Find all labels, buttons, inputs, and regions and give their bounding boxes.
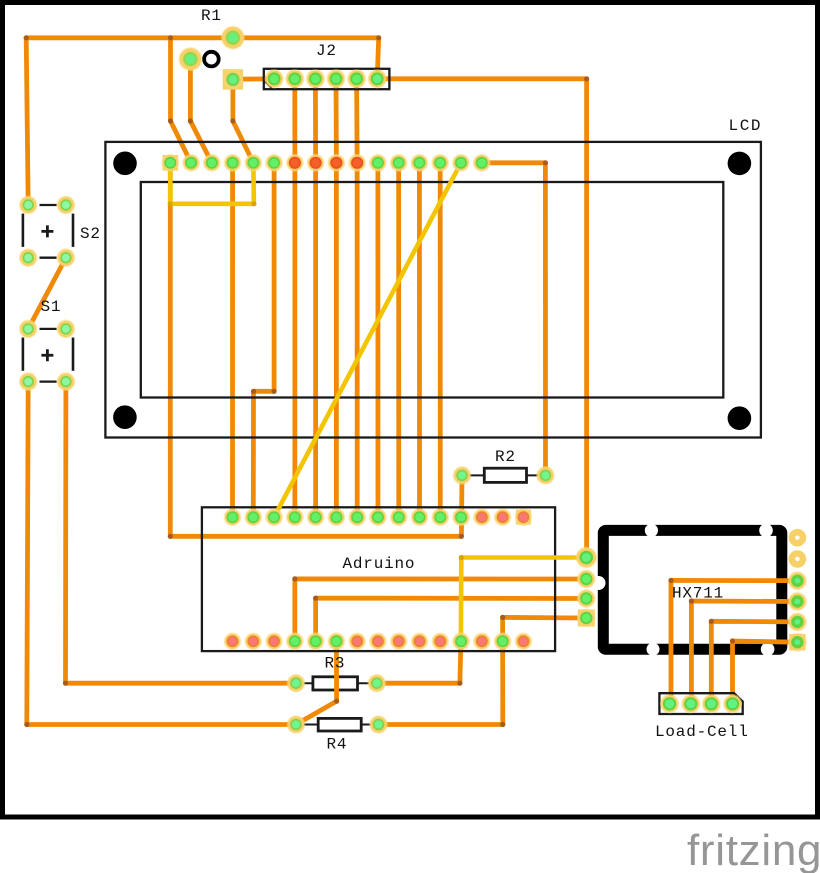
switch S2 pin 3 xyxy=(19,248,38,267)
svg-text:R3: R3 xyxy=(325,655,346,673)
Arduino bottom pin 17 xyxy=(244,633,262,651)
HX711 left pin 3 xyxy=(577,589,596,608)
Arduino bottom pin 21 xyxy=(328,632,346,650)
wire xyxy=(668,578,797,704)
wire xyxy=(188,59,212,163)
LCD pin 7 xyxy=(286,154,304,172)
wire xyxy=(251,163,277,517)
wire xyxy=(500,615,586,641)
wire xyxy=(334,79,339,517)
Arduino bottom pin 18 xyxy=(265,633,283,651)
wire xyxy=(168,163,257,207)
wire xyxy=(396,163,401,517)
Arduino module outline xyxy=(202,507,555,651)
wire xyxy=(354,79,359,517)
wire xyxy=(438,163,443,517)
LCD pin 2 xyxy=(182,154,200,172)
Arduino top pin 3 xyxy=(265,508,283,526)
HX711 right pin 5 xyxy=(788,612,807,631)
svg-text:J2: J2 xyxy=(316,42,337,60)
wire xyxy=(313,79,318,517)
HX711 left pin 4 xyxy=(577,609,596,628)
resistor R4 pad 2 xyxy=(369,715,388,734)
label S2 xyxy=(80,225,101,243)
svg-text:HX711: HX711 xyxy=(672,585,724,603)
switch S1 pin 2 xyxy=(57,320,76,339)
label Load-Cell xyxy=(655,723,749,741)
connector J2 pin 5 xyxy=(347,69,366,88)
wire xyxy=(482,160,548,475)
LCD pin 13 xyxy=(411,154,429,172)
resistor R4 pad 1 xyxy=(287,715,306,734)
Load-Cell pin 2 xyxy=(681,694,700,713)
wire xyxy=(28,258,66,329)
Arduino top pin 6 xyxy=(328,508,346,526)
wire xyxy=(296,641,339,724)
HX711 right pin 1 xyxy=(789,529,807,547)
wire xyxy=(233,76,274,81)
HX711 right pin 4 xyxy=(788,592,807,611)
wire xyxy=(63,382,296,686)
svg-text:R2: R2 xyxy=(495,448,516,466)
fritzing logo xyxy=(687,826,820,873)
LCD pin 1 xyxy=(161,154,179,172)
LCD pin 5 xyxy=(244,154,262,172)
resistor R2 pad 1 xyxy=(453,466,472,485)
connector J2 pin 3 xyxy=(306,69,325,88)
Load-Cell pin 4 xyxy=(723,694,742,713)
wire xyxy=(377,76,589,557)
wire xyxy=(377,641,463,686)
wire xyxy=(230,163,235,517)
resistor R2 pad 2 xyxy=(536,466,555,485)
wire xyxy=(730,638,798,703)
label R3 xyxy=(325,655,346,673)
svg-text:S1: S1 xyxy=(41,298,62,316)
HX711 left pin 2 xyxy=(577,570,596,589)
label R2 xyxy=(495,448,516,466)
HX711 right pin 6 xyxy=(788,633,807,652)
wire xyxy=(24,382,296,728)
connector J2 pin 4 xyxy=(326,69,345,88)
LCD pin 11 xyxy=(369,154,387,172)
Arduino bottom pin 28 xyxy=(473,633,491,651)
Arduino top pin 12 xyxy=(452,508,470,526)
LCD pin 15 xyxy=(452,154,470,172)
resistor R1 pad 2 xyxy=(178,47,202,71)
resistor R2 body xyxy=(468,468,539,482)
junction xyxy=(168,35,173,40)
Load-Cell pin 3 xyxy=(702,694,721,713)
Arduino bottom pin 22 xyxy=(348,633,366,651)
wire xyxy=(274,163,461,517)
wire xyxy=(168,163,464,539)
LCD pin 9 xyxy=(327,154,345,172)
LCD pin 14 xyxy=(431,154,449,172)
label R1 xyxy=(201,7,222,25)
LCD pin 12 xyxy=(390,154,408,172)
wire xyxy=(459,555,587,641)
label HX711 xyxy=(672,585,724,603)
svg-text:R4: R4 xyxy=(327,736,348,754)
switch S1 pin 3 xyxy=(19,372,38,391)
label LCD xyxy=(729,117,763,135)
Arduino top pin 11 xyxy=(431,508,449,526)
switch S1 pin 1 xyxy=(19,320,38,339)
wire xyxy=(230,79,253,162)
Arduino top pin 2 xyxy=(244,508,262,526)
Arduino top pin 14 xyxy=(494,508,512,526)
Arduino bottom pin 26 xyxy=(432,633,450,651)
connector J2 pin 6 xyxy=(368,69,387,88)
Arduino bottom pin 29 xyxy=(494,632,512,650)
wire xyxy=(375,163,380,517)
Arduino top pin 5 xyxy=(307,508,325,526)
Arduino bottom pin 25 xyxy=(411,633,429,651)
LCD pin 6 xyxy=(265,154,283,172)
Arduino top pin 8 xyxy=(369,508,387,526)
switch S1 pin 4 xyxy=(57,372,76,391)
label R4 xyxy=(327,736,348,754)
switch S1 outline xyxy=(23,329,73,382)
Arduino top pin 1 xyxy=(224,508,242,526)
resistor R3 pad 1 xyxy=(287,674,306,693)
LCD pin 4 xyxy=(224,154,242,172)
Arduino bottom pin 16 xyxy=(224,633,242,651)
resistor R1 pad 1 xyxy=(221,26,245,50)
wire xyxy=(709,619,798,704)
pad P1 xyxy=(223,69,243,89)
Arduino bottom pin 20 xyxy=(307,632,325,650)
Arduino top pin 15 xyxy=(515,508,533,526)
connector J2 outline xyxy=(264,69,390,89)
wire xyxy=(292,576,586,641)
svg-text:Load-Cell: Load-Cell xyxy=(655,723,749,741)
Arduino top pin 7 xyxy=(348,508,366,526)
label J2 xyxy=(316,42,337,60)
LCD pin 10 xyxy=(348,154,366,172)
svg-text:fritzing: fritzing xyxy=(687,826,820,873)
resistor R3 body xyxy=(302,677,371,690)
Arduino bottom pin 24 xyxy=(390,633,408,651)
svg-text:R1: R1 xyxy=(201,7,222,25)
via xyxy=(204,52,219,67)
Arduino top pin 9 xyxy=(390,508,408,526)
Arduino bottom pin 30 xyxy=(515,633,533,651)
HX711 right pin 2 xyxy=(789,550,807,568)
resistor R4 body xyxy=(302,718,372,731)
label S1 xyxy=(41,298,62,316)
switch S2 pin 4 xyxy=(57,248,76,267)
Arduino bottom pin 19 xyxy=(286,632,304,650)
Load-Cell pin 1 xyxy=(660,694,679,713)
connector J2 pin 2 xyxy=(285,69,304,88)
wire xyxy=(24,35,382,205)
svg-text:Adruino: Adruino xyxy=(343,555,416,573)
wire xyxy=(689,598,798,703)
Arduino top pin 10 xyxy=(411,508,429,526)
svg-text:LCD: LCD xyxy=(729,117,763,135)
HX711 left pin 1 xyxy=(576,547,598,569)
HX711 right pin 3 xyxy=(788,571,807,590)
Arduino bottom pin 27 xyxy=(452,632,470,650)
label Adruino xyxy=(343,555,416,573)
wire xyxy=(168,38,191,163)
Arduino top pin 4 xyxy=(286,508,304,526)
LCD pin 16 xyxy=(473,154,491,172)
wire xyxy=(313,596,586,642)
switch S2 pin 2 xyxy=(57,196,76,215)
switch S2 pin 1 xyxy=(19,196,38,215)
LCD pin 8 xyxy=(307,154,325,172)
Arduino pin square xyxy=(516,510,531,525)
Arduino top pin 13 xyxy=(473,508,491,526)
connector J2 pin 1 xyxy=(265,69,284,88)
svg-text:S2: S2 xyxy=(80,225,101,243)
connector Load-Cell outline xyxy=(659,693,742,714)
LCD module outline xyxy=(105,142,761,438)
wire xyxy=(292,79,297,517)
LCD pin 3 xyxy=(203,154,221,172)
LCD pin 1 square xyxy=(163,155,179,171)
Arduino bottom pin 23 xyxy=(369,633,387,651)
IC U1 HX711 outline xyxy=(592,524,782,656)
wire xyxy=(417,163,422,517)
wire xyxy=(379,641,506,727)
resistor R3 pad 2 xyxy=(368,674,387,693)
switch S2 outline xyxy=(23,205,73,258)
